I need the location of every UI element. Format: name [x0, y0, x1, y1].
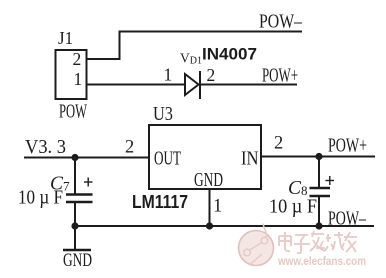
- svg-text:2: 2: [207, 65, 216, 85]
- wire C7 bottom lead: [74, 202, 76, 226]
- diode VD1: [185, 71, 200, 99]
- svg-text:2: 2: [125, 138, 134, 158]
- svg-text:POW+: POW+: [262, 66, 298, 87]
- connector J1: [56, 50, 87, 99]
- wire J1 pin1 to diode: [86, 84, 185, 86]
- wire C7 top lead: [74, 158, 76, 195]
- node junction C8/POW-: [315, 222, 322, 229]
- wire V3.3 to OUT pin: [24, 157, 149, 159]
- wire GND stem: [74, 226, 76, 250]
- node junction V3.3/C7: [71, 154, 78, 161]
- wire C8 bottom lead: [318, 196, 320, 226]
- capacitor C7 plus sign: [84, 178, 93, 187]
- ground: [63, 249, 91, 252]
- svg-text:1: 1: [164, 65, 173, 85]
- svg-text:IN: IN: [241, 149, 259, 170]
- svg-text:V3. 3: V3. 3: [25, 137, 66, 158]
- svg-text:2: 2: [73, 49, 82, 69]
- node junction U3 GND: [206, 222, 213, 229]
- svg-text:GND: GND: [63, 251, 92, 271]
- wire POW- top net: [86, 32, 302, 60]
- svg-text:POW–: POW–: [328, 209, 366, 230]
- svg-text:POW–: POW–: [259, 12, 302, 33]
- capacitor C7: [66, 195, 93, 203]
- svg-text:POW+: POW+: [328, 136, 367, 157]
- wire IN pin to POW+: [261, 156, 375, 158]
- svg-text:1: 1: [74, 69, 83, 89]
- svg-text:LM1117: LM1117: [132, 192, 188, 212]
- wire diode cathode to POW+: [200, 84, 297, 86]
- svg-text:1: 1: [213, 197, 222, 217]
- svg-text:OUT: OUT: [154, 149, 181, 170]
- svg-text:www.elecfans.com: www.elecfans.com: [277, 254, 366, 268]
- capacitor C8: [310, 188, 331, 196]
- wire C8 top lead: [318, 157, 320, 189]
- node junction C7/GND: [71, 222, 78, 229]
- capacitor C8 plus sign: [326, 176, 335, 185]
- watermark chinese text: [279, 231, 357, 253]
- node junction IN/C8: [315, 153, 322, 160]
- svg-text:VD1: VD1: [180, 51, 202, 67]
- wire bottom POW- net: [75, 225, 374, 227]
- svg-text:2: 2: [274, 134, 283, 154]
- svg-text:U3: U3: [153, 104, 173, 125]
- svg-text:POW: POW: [59, 102, 87, 123]
- svg-text:J1: J1: [58, 28, 73, 48]
- regulator U3 LM1117 box: [149, 125, 261, 189]
- watermark logo circle: [239, 224, 274, 266]
- wire U3 GND pin lead: [209, 189, 211, 226]
- svg-text:7: 7: [63, 179, 70, 194]
- svg-text:10 µ F: 10 µ F: [269, 197, 317, 218]
- svg-text:IN4007: IN4007: [202, 45, 257, 64]
- svg-text:10 µ F: 10 µ F: [18, 188, 63, 209]
- svg-text:GND: GND: [194, 170, 223, 191]
